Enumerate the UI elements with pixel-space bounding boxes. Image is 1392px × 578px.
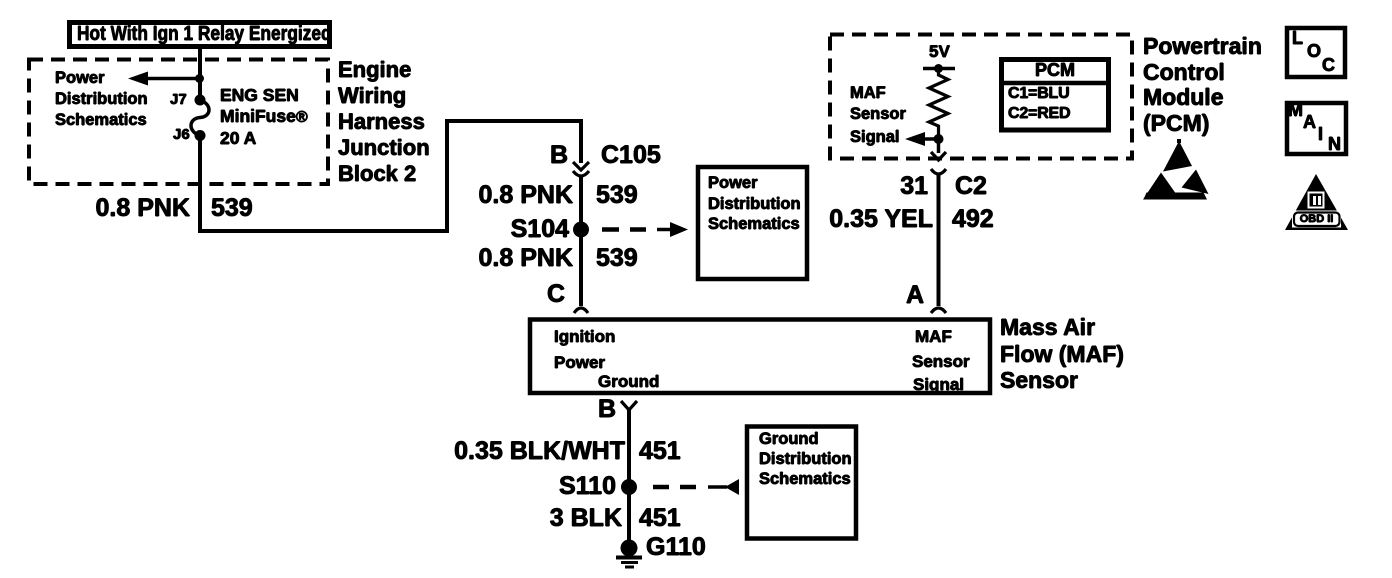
arrowhead pointing left to Power Distribution Schematics	[128, 72, 148, 86]
node J6	[195, 130, 206, 141]
dashed box: Engine Wiring Harness Junction Block 2	[29, 60, 328, 185]
label: Ignition (MAF sensor pin)	[554, 328, 615, 345]
label: Power Distribution Schematics (junction block)	[55, 68, 148, 131]
box: Mass Air Flow (MAF) Sensor	[530, 320, 990, 394]
wire: down from branch to pin 31	[937, 139, 941, 153]
label: 5V	[929, 43, 950, 60]
box: MAIN symbol	[1287, 103, 1346, 154]
connector A into MAF sensor	[931, 308, 946, 313]
box: PCM connector legend table	[1002, 60, 1109, 131]
node: signal branch dot	[934, 134, 944, 144]
node: branch dot to power distribution arrow	[195, 74, 204, 83]
wire: pin 31 down to connector A	[937, 175, 941, 306]
label: 0.35 BLK/WHT 451	[445, 439, 625, 464]
connector C2 male arrow (down)	[931, 152, 946, 160]
label: Ground (MAF sensor pin)	[598, 373, 659, 390]
box: LOC symbol	[1287, 28, 1345, 77]
wire: branch line to left arrow	[140, 77, 200, 81]
box: Ground Distribution Schematics	[747, 427, 856, 539]
fuse ENG SEN MiniFuse 20 A (S-curve symbol)	[191, 100, 209, 136]
wire: branch to MAF Sensor Signal arrow	[922, 137, 939, 141]
ESD static sensitive symbol	[1143, 139, 1209, 200]
wire: MAF ground pin B down to G110	[627, 409, 631, 542]
node S110 splice dot	[621, 479, 637, 495]
label: MAF (MAF sensor pin column)	[915, 328, 952, 345]
label: C1=BLU C2=RED	[1008, 84, 1070, 125]
label: Mass Air Flow (MAF) Sensor	[1000, 314, 1124, 394]
label: MAIN letters	[1288, 101, 1303, 119]
label: pin C of MAF sensor	[547, 282, 565, 307]
label: LOC letters	[1292, 29, 1303, 47]
label: 0.8 PNK 539 (junction block output)	[70, 196, 190, 221]
label: Powertrain Control Module (PCM)	[1143, 34, 1262, 136]
dashed arrow: S104 to Power Distribution Schematics	[602, 227, 619, 232]
wire: J6 down, right, up, right to C105	[200, 121, 581, 231]
label: S104	[449, 217, 569, 242]
connector C105 male arrow (down)	[573, 162, 589, 170]
resistor: PCM pull-up	[929, 69, 948, 140]
label: Hot With Ign 1 Relay Energized	[77, 22, 337, 47]
label: G110	[646, 535, 706, 560]
dashed box: PCM	[830, 35, 1132, 159]
label: pin A of MAF sensor	[906, 283, 924, 308]
dashed arrow: S110 to Ground Distribution Schematics	[653, 485, 669, 490]
label: Ground Distribution Schematics (reference box)	[759, 429, 852, 489]
OBD II triangle symbol	[1285, 174, 1348, 230]
5V supply bar	[923, 67, 955, 71]
node J7	[195, 95, 206, 106]
label: pin B of MAF sensor	[598, 397, 616, 422]
ground G110 symbol	[621, 540, 638, 557]
arrowhead pointing left (MAF Sensor Signal)	[905, 132, 925, 146]
label: C105	[601, 143, 661, 168]
box: Hot With Ign 1 Relay Energized	[70, 23, 330, 47]
label: 0.8 PNK 539 (below S104)	[453, 246, 573, 271]
label: J7	[170, 92, 187, 107]
connector B below MAF sensor	[621, 401, 637, 410]
label: 3 BLK 451	[502, 506, 622, 531]
label: MAF Sensor Signal (PCM internal)	[850, 85, 886, 102]
label: pin 31 of C2	[868, 174, 928, 199]
wire: from Hot box down to J7	[198, 49, 202, 100]
connector C into MAF sensor	[574, 308, 588, 313]
label: Power Distribution Schematics (reference box)	[708, 173, 801, 235]
node: 5V dot	[934, 64, 943, 73]
label: PCM table header	[1001, 61, 1109, 79]
label: Power (MAF sensor pin)	[554, 354, 605, 371]
label: 0.35 YEL 492	[813, 207, 933, 232]
label: Engine Wiring Harness Junction Block 2	[338, 57, 430, 187]
label: J6	[173, 127, 190, 142]
label: ENG SEN MiniFuse 20 A	[220, 85, 308, 149]
connector C105 female receptacle	[573, 171, 589, 176]
label: OBD II text	[1294, 214, 1340, 225]
label: S110	[496, 474, 616, 499]
label: C2	[955, 174, 987, 199]
label: 0.8 PNK 539 (above S104)	[453, 183, 573, 208]
node S104 splice dot	[573, 222, 589, 238]
box: Power Distribution Schematics	[698, 167, 807, 279]
label: pin B of C105	[550, 143, 568, 168]
connector C2 female receptacle	[931, 169, 946, 174]
wire: C105 down through S104 to connector C	[579, 176, 583, 306]
